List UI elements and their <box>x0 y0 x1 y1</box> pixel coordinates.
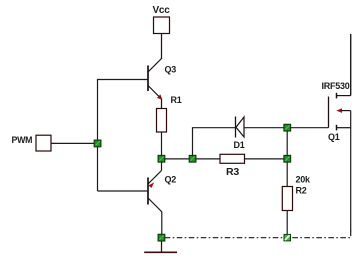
node E <box>284 234 291 241</box>
svg-text:R1: R1 <box>171 95 182 105</box>
transistor Q2 <box>148 171 162 213</box>
svg-text:20k: 20k <box>296 175 312 185</box>
wire D1 anode to node C <box>244 127 284 129</box>
node PWM junction <box>94 140 101 147</box>
svg-text:Q1: Q1 <box>328 132 340 142</box>
svg-text:D1: D1 <box>234 140 245 150</box>
wire node C to node D <box>286 131 288 156</box>
wire Q1 drain up <box>350 34 352 96</box>
svg-text:PWM: PWM <box>12 135 33 145</box>
resistor R1 <box>157 109 167 133</box>
svg-text:IRF530: IRF530 <box>322 81 350 91</box>
input terminal PWM <box>36 135 51 151</box>
wire Q3 base <box>98 79 149 81</box>
wire node B to R3 <box>196 158 220 160</box>
wire Q2 base <box>98 190 149 192</box>
transistor Q3 <box>148 58 162 100</box>
resistor R2 <box>282 187 292 211</box>
wire Q2 collector down <box>161 212 163 235</box>
wire PWM to rail <box>51 142 98 144</box>
svg-text:Vcc: Vcc <box>153 5 171 16</box>
svg-text:Q3: Q3 <box>165 65 177 75</box>
wire R3 to node D <box>245 158 285 160</box>
wire R1 to node A <box>161 132 163 156</box>
wire node B up to diode D1 <box>193 128 236 156</box>
node B <box>189 155 196 162</box>
svg-text:R3: R3 <box>226 166 239 178</box>
wire left rail <box>97 79 99 191</box>
wire node A to node B <box>165 158 190 160</box>
resistor R3 <box>220 154 245 163</box>
transistor Q1 (MOSFET IRF530) <box>329 93 351 131</box>
wire node D to R2 <box>286 162 288 187</box>
wire dashed ground rail right <box>291 231 351 238</box>
node C <box>284 124 291 131</box>
ground <box>144 241 177 252</box>
node A <box>158 155 165 162</box>
wire Q3 emitter to R1 <box>161 99 163 109</box>
node D <box>284 155 291 162</box>
diode D1 <box>236 117 245 138</box>
svg-text:R2: R2 <box>296 186 307 196</box>
power terminal Vcc <box>154 17 170 34</box>
svg-text:Q2: Q2 <box>165 175 177 185</box>
node ground junction <box>158 234 165 241</box>
wire Vcc to Q3 collector <box>161 34 163 59</box>
wire R2 to node E <box>286 211 288 235</box>
wire Q1 body and source down <box>350 111 352 232</box>
wire node C to Q1 gate <box>291 127 329 129</box>
wire dashed ground rail left <box>165 237 284 239</box>
wire Q2 emitter to node A <box>161 162 163 171</box>
